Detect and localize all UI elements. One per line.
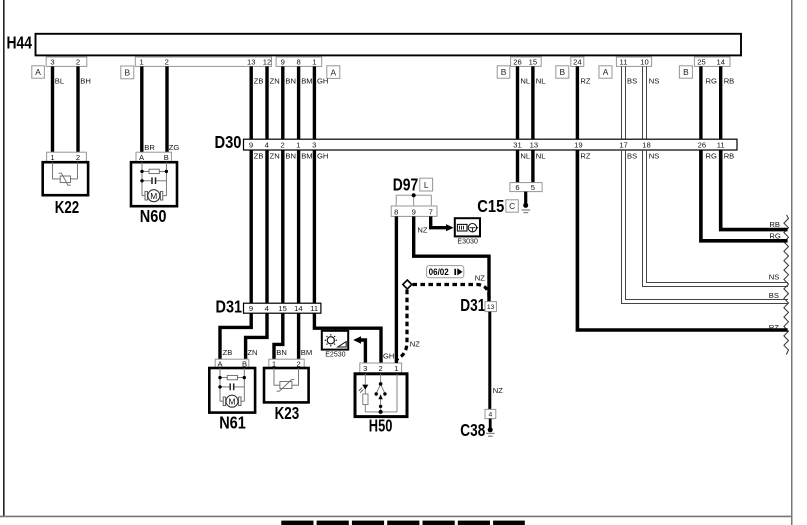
wire H44-9 to D30-2 (BN) [281,66,284,139]
E3030 connector icon [457,224,467,231]
dashed wire diamond to H50-1 (NZ) [397,290,407,360]
wire D31-15 to K23-1 (BN) [274,313,283,359]
svg-text:RB: RB [769,220,780,229]
wire D31-4 to N61-B (ZN) [246,313,267,359]
svg-text:8: 8 [296,58,300,67]
wire D31-11 to H50-2 (GH) [314,313,381,363]
svg-text:C: C [509,201,515,211]
component N60 body (blower motor) [131,162,177,206]
svg-text:9: 9 [249,141,253,150]
svg-text:B: B [164,153,169,162]
component N60 pin strip (A,B) [136,152,171,162]
connector pin box 13 [485,302,496,312]
svg-text:ZN: ZN [270,76,280,85]
svg-text:E2530: E2530 [325,349,345,358]
H44 pin strip A2 (pins 9,8,1) [276,57,322,67]
svg-text:B: B [501,67,507,77]
H44 pin strip A (pins 3,2 to K22) [46,57,87,67]
wire D30-13 to C15-5 (NL) [531,150,534,183]
component E3030 box (diagnostic socket pictogram) [455,218,480,236]
wire H44-10 to D30-18 (NS, twin-lead) [643,66,647,139]
svg-text:RZ: RZ [580,151,590,160]
wire D30-4 to D31-4 (ZN) [265,150,268,303]
junction diamond node [403,280,412,289]
connector letter box C [506,200,518,212]
arrowhead to E3030 [446,224,454,231]
svg-text:NS: NS [649,76,660,85]
K23 internal thermistor [274,368,299,391]
svg-text:11: 11 [310,304,318,313]
wire H44-B2 to N60-B (ZG) [165,66,168,152]
wire H44-24 to D30-19 (RZ) [576,66,579,139]
svg-text:RG: RG [706,76,717,85]
wire H44-2 to K22-2 (BH) [76,66,79,152]
wire D30-1 to D31-14 (BM) [297,150,300,303]
svg-text:2: 2 [76,153,80,162]
E2530 dimmer ramp icon [338,342,346,347]
connector D30 body [244,139,738,150]
svg-text:NL: NL [520,76,530,85]
svg-text:RB: RB [724,76,735,85]
svg-text:10: 10 [640,58,648,67]
reference pointer 06/02 [427,266,464,278]
connector C15 pin strip (6,5) [510,183,542,192]
svg-text:ZB: ZB [254,76,264,85]
svg-text:11: 11 [717,141,725,150]
connector letter box A [599,66,612,78]
svg-text:NZ: NZ [493,386,503,395]
svg-text:NZ: NZ [410,340,420,349]
wire D97-7 to E3030 [431,216,446,227]
wire D30-19 to right edge (RZ) [577,150,787,330]
svg-text:9: 9 [249,304,253,313]
component K23 body (temperature sensor) [264,368,309,402]
svg-text:7: 7 [429,207,433,216]
svg-text:ZN: ZN [270,151,280,160]
ground node dot C38 [488,427,493,432]
ground stem C15 [524,192,527,204]
ground node dot C15 [523,203,528,208]
svg-text:24: 24 [573,58,581,67]
H50 internal circuit lines [363,374,397,412]
svg-text:13: 13 [530,141,538,150]
svg-text:17: 17 [619,141,627,150]
connector D97 pin strip (8,9,7) [391,206,437,216]
svg-text:RG: RG [769,231,780,240]
svg-text:A: A [603,67,609,77]
wire H44-11 to D30-17 (BS, twin-lead) [622,66,626,139]
svg-text:BL: BL [55,76,64,85]
K22 internal thermistor [53,162,78,185]
connector letter box A [327,66,340,79]
component K22 body (temperature sensor) [43,162,88,195]
svg-text:1: 1 [394,364,398,373]
svg-text:15: 15 [529,58,537,67]
svg-text:31: 31 [513,141,521,150]
connector letter box B [679,66,692,78]
svg-text:BR: BR [144,143,155,152]
connector H44 body [36,34,742,56]
svg-text:H44: H44 [7,33,33,53]
svg-text:B: B [683,67,689,77]
svg-text:14: 14 [294,304,302,313]
svg-text:H50: H50 [369,415,393,435]
svg-text:RZ: RZ [769,323,779,332]
svg-text:12: 12 [263,58,271,67]
svg-text:A: A [331,67,337,77]
svg-text:D97: D97 [393,174,418,194]
svg-text:BH: BH [80,76,91,85]
svg-text:ZB: ZB [223,348,233,357]
svg-text:BN: BN [285,151,296,160]
svg-text:BS: BS [627,151,637,160]
N60 junction dots [140,170,143,173]
N60 internal circuit [142,162,166,196]
arrowhead to E2530 [353,336,361,343]
wire D30-11 to right edge (RB) [721,150,788,230]
svg-text:BM: BM [301,151,312,160]
svg-text:18: 18 [642,141,650,150]
wire H44-B1 to N60-A (BR) [140,66,143,152]
wire D30-9 to D31-9 (ZB) [249,150,252,303]
wire D30-17 to right edge (BS twin-lead) [622,150,789,304]
svg-text:ZG: ZG [169,143,180,152]
svg-text:4: 4 [265,141,269,150]
svg-text:C38: C38 [460,420,485,440]
svg-text:NZ: NZ [417,226,427,235]
svg-text:BM: BM [301,76,312,85]
H50 junction dots [379,382,383,386]
svg-text:13: 13 [487,304,495,311]
page-break squiggle [784,215,789,355]
svg-text:3: 3 [312,141,316,150]
connector letter box B [121,66,134,79]
svg-text:D31: D31 [216,297,243,317]
svg-text:RG: RG [706,151,717,160]
wire H44-1 to D30-3 (GH) [313,66,316,139]
svg-text:1: 1 [139,58,143,67]
svg-text:25: 25 [697,58,705,67]
svg-text:15: 15 [278,304,286,313]
wire H44-14 to D30-11 (RB) [719,66,722,139]
connector letter box B [556,66,569,78]
connector letter box A [32,66,45,78]
connector letter box B [497,66,510,78]
ground bars C15 [521,209,530,211]
svg-text:5: 5 [531,183,535,192]
svg-text:1: 1 [50,153,54,162]
svg-text:14: 14 [716,58,724,67]
E2530 lamp icon [325,334,337,346]
svg-text:B: B [125,68,131,78]
component H50 pin strip (3,2,1) [360,363,402,373]
svg-text:GH: GH [383,352,394,361]
wire D31-13 to C38 (NZ) [488,312,491,410]
svg-text:2: 2 [76,58,80,67]
svg-text:06/02: 06/02 [429,267,449,277]
svg-text:11: 11 [620,58,628,67]
svg-text:9: 9 [412,207,416,216]
svg-text:19: 19 [574,141,582,150]
wire H50-3 to E2530 arrow [360,340,365,363]
wire D31-14 to K23-2 (BM) [297,313,300,359]
H44 pin strip B2 (pins 26,15) [511,57,542,67]
H44 pin strip B3 (pin 24) [571,57,584,67]
component H50 body (switch illumination) [355,374,407,417]
svg-text:K23: K23 [275,403,300,423]
svg-text:ZB: ZB [254,151,264,160]
svg-text:8: 8 [394,207,398,216]
svg-text:13: 13 [247,58,255,67]
svg-text:NL: NL [536,151,546,160]
H50 emission arrows [359,388,364,393]
svg-text:L: L [424,180,429,190]
wire H44-13 to D30-9 (ZB) [249,66,252,139]
wire H44-3 to K22-1 (BL) [51,66,54,152]
D97 bracket [396,195,431,206]
svg-text:B: B [560,67,566,77]
wire H44-12 to D30-4 (ZN) [265,66,268,139]
D97 bracket node dot [412,193,416,197]
svg-text:9: 9 [281,58,285,67]
wire D97-8 to H50-1 [395,216,398,363]
svg-text:C15: C15 [477,196,504,216]
svg-text:BN: BN [276,348,287,357]
wire H44-26 to D30-31 (NL) [516,66,519,139]
wire H44-25 to D30-26 (RG) [699,66,702,139]
svg-text:GH: GH [317,151,328,160]
svg-text:M: M [229,396,236,406]
svg-text:D31: D31 [460,295,485,315]
E3030 instrument icon [468,224,478,232]
wire D30-2 to D31-15 (BN) [281,150,284,303]
svg-text:D30: D30 [215,132,242,152]
wire D97-9 to D31-13 (NZ) [414,216,489,301]
svg-text:N60: N60 [140,206,167,226]
svg-text:6: 6 [515,183,519,192]
svg-text:1: 1 [312,58,316,67]
wire D31-9 to N61-A (ZB) [220,313,251,359]
svg-text:4: 4 [265,304,269,313]
wire D30-26 to right edge (RG) [701,150,788,241]
svg-text:E3030: E3030 [457,236,478,245]
H50 up arrow [378,394,382,399]
svg-text:3: 3 [50,58,54,67]
svg-text:NZ: NZ [475,273,485,282]
svg-text:4: 4 [489,412,493,419]
ground bars C38 [486,432,495,434]
svg-text:26: 26 [698,141,706,150]
N60 capacitor plates [151,177,153,184]
svg-text:2: 2 [378,364,382,373]
N60 motor symbol [145,190,163,202]
svg-text:RZ: RZ [580,76,590,85]
H44 pin strip B (pins 1,2,13,12) [135,57,271,67]
wire H44-8 to D30-1 (BM) [297,66,300,139]
component N61 pin strip (A,B) [215,359,249,368]
connector D31 body [244,303,321,313]
svg-text:BN: BN [285,76,296,85]
component K22 pin strip (1,2) [47,152,87,162]
svg-text:2: 2 [280,141,284,150]
wire D30-18 to right edge (NS twin-lead) [643,150,789,287]
svg-text:26: 26 [513,58,521,67]
N61 internal circuit [220,368,244,401]
wire H44-15 to D30-13 (NL) [531,66,534,139]
H44 pin strip B4 (pins 25,14) [694,57,730,67]
wire D30-31 to C15-6 (NL) [516,150,519,183]
N61 motor symbol [223,395,241,407]
component E2530 box (lighting rheostat pictogram) [322,331,348,350]
svg-text:A: A [35,67,41,77]
dashed wire diamond to D31-13 (NZ) [412,285,489,302]
component N61 body (blower motor) [209,368,255,413]
N61 capacitor plates [229,383,231,390]
svg-text:NL: NL [520,151,530,160]
svg-text:NS: NS [769,272,780,281]
svg-text:BS: BS [627,76,637,85]
svg-text:1: 1 [296,141,300,150]
svg-text:BS: BS [769,291,779,300]
svg-text:BM: BM [301,348,312,357]
N61 junction dots [218,376,221,379]
svg-text:NL: NL [536,76,546,85]
svg-text:RB: RB [724,151,735,160]
wire D30-3 to D31-11 (GH) [313,150,316,303]
H44 pin strip A3 (pins 11,10) [616,57,651,67]
svg-text:M: M [150,191,157,201]
svg-text:N61: N61 [219,412,246,432]
svg-text:K22: K22 [55,197,80,217]
svg-text:ZN: ZN [247,348,257,357]
H50 LED triangle [362,385,368,390]
component K23 pin strip (1,2) [269,359,304,368]
connector letter box L [420,178,433,191]
connector pin box 4 [485,409,496,418]
svg-text:3: 3 [363,364,367,373]
svg-text:2: 2 [165,58,169,67]
svg-text:GH: GH [317,76,328,85]
svg-text:NS: NS [649,151,660,160]
ground stem C38 [489,419,492,428]
